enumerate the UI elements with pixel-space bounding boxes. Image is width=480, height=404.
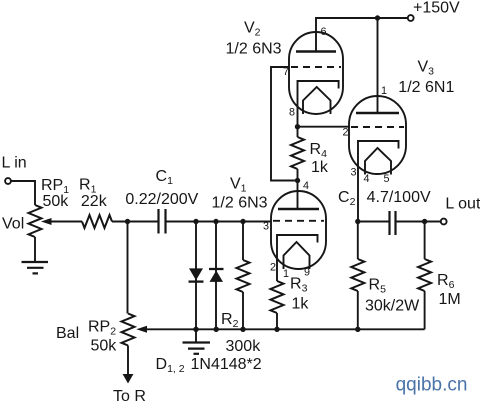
resistor R4 xyxy=(291,137,304,169)
junction R5 bottom xyxy=(355,327,360,332)
wire RP1 wiper to R1 xyxy=(49,221,82,223)
svg-text:22k: 22k xyxy=(81,193,108,210)
svg-text:L in: L in xyxy=(2,155,27,172)
wire R1 to C1, node A xyxy=(112,221,158,223)
junction R4 bottom / V1 plate xyxy=(295,178,300,183)
junction output node xyxy=(355,219,360,224)
junction R2 top xyxy=(240,219,245,224)
wire node A down to RP2 xyxy=(127,222,129,314)
svg-text:+150V: +150V xyxy=(413,0,460,17)
wire R6 bottom to rail xyxy=(424,291,426,329)
bottom rail wire xyxy=(145,328,425,330)
wire C2 to L out xyxy=(397,221,441,223)
RP1 wiper arrow xyxy=(41,218,52,225)
wire RP2 bottom to To R arrow xyxy=(127,346,129,376)
V3 heater filament xyxy=(365,148,391,175)
V3 plate line xyxy=(356,112,399,115)
svg-text:1k: 1k xyxy=(311,159,329,176)
wire R4 top lead xyxy=(297,127,299,137)
terminal +150V xyxy=(408,15,414,21)
svg-text:9: 9 xyxy=(304,267,310,279)
RP2 wiper arrow xyxy=(136,326,147,333)
svg-text:50k: 50k xyxy=(91,338,118,355)
junction +150V rail xyxy=(375,15,380,20)
V2 heater filament xyxy=(303,87,331,114)
svg-text:1/2 6N3: 1/2 6N3 xyxy=(226,41,282,58)
wire RP1 bottom to ground xyxy=(34,237,36,262)
capacitor C2 xyxy=(390,211,396,235)
V1 heater filament xyxy=(284,242,310,269)
V3 grid dashed line xyxy=(351,126,404,128)
junction ground node xyxy=(193,327,198,332)
V1 grid dashed line xyxy=(273,220,324,222)
svg-text:1M: 1M xyxy=(439,291,461,308)
svg-text:2: 2 xyxy=(270,262,276,274)
V2 grid dashed line xyxy=(291,66,341,68)
svg-text:1k: 1k xyxy=(292,296,310,313)
wire diode D2 branch xyxy=(215,222,217,330)
svg-text:1N4148*2: 1N4148*2 xyxy=(191,356,262,373)
svg-text:4: 4 xyxy=(364,173,370,185)
tube V1 envelope xyxy=(271,191,326,269)
ground (below RP1) xyxy=(22,262,49,273)
V3 cathode bracket and lead to output node xyxy=(358,141,399,222)
junction D1 top xyxy=(193,219,198,224)
svg-text:6: 6 xyxy=(321,26,327,38)
wire V2 grid to R4 bottom xyxy=(271,67,298,181)
wire V2 cathode to V3 grid xyxy=(298,126,350,128)
wire R6 branch xyxy=(424,222,426,260)
wire diode D1 branch xyxy=(195,222,197,330)
ground (bottom rail) xyxy=(195,329,197,342)
svg-text:Bal: Bal xyxy=(56,325,79,342)
svg-text:4.7/100V: 4.7/100V xyxy=(367,189,431,206)
wire R3 bottom lead xyxy=(276,313,278,329)
V1 plate lead wire xyxy=(297,181,299,210)
tube V2 envelope xyxy=(289,32,343,114)
svg-text:3: 3 xyxy=(351,167,357,179)
svg-text:4: 4 xyxy=(303,180,309,192)
resistor R2 xyxy=(237,260,250,292)
resistor R5 xyxy=(351,259,364,291)
junction D2 top xyxy=(213,219,218,224)
V2 plate line xyxy=(296,50,336,53)
V2 plate lead wire to +150V rail xyxy=(316,18,408,52)
svg-text:To R: To R xyxy=(113,388,146,404)
junction R3 bottom xyxy=(274,327,279,332)
svg-text:50k: 50k xyxy=(43,193,70,210)
potentiometer RP2 body xyxy=(122,314,135,346)
svg-text:L out: L out xyxy=(445,196,480,213)
tube V3 envelope xyxy=(349,96,406,174)
resistor R1 xyxy=(82,215,112,228)
V1 plate line xyxy=(278,208,319,211)
wire R5 bottom lead xyxy=(357,291,359,329)
junction node A xyxy=(125,219,130,224)
svg-text:7: 7 xyxy=(283,66,289,78)
V3 plate lead wire to +150V rail xyxy=(377,18,379,113)
capacitor C1 xyxy=(159,209,166,234)
svg-text:2: 2 xyxy=(343,127,349,139)
svg-text:1: 1 xyxy=(381,85,387,97)
wire output node to C2 xyxy=(358,221,389,223)
resistor R6 xyxy=(418,259,431,291)
svg-text:1/2 6N1: 1/2 6N1 xyxy=(398,79,454,96)
svg-text:300k: 300k xyxy=(226,338,262,355)
wire C1 to V1 grid rail xyxy=(167,221,272,223)
svg-text:1: 1 xyxy=(283,268,289,280)
svg-text:1/2 6N3: 1/2 6N3 xyxy=(212,195,268,212)
svg-text:8: 8 xyxy=(289,107,295,119)
svg-text:0.22/200V: 0.22/200V xyxy=(125,191,198,208)
V2 cathode bracket and lead down xyxy=(298,81,339,127)
input terminal L in xyxy=(5,178,11,184)
svg-text:30k/2W: 30k/2W xyxy=(365,298,420,315)
junction R2 bottom xyxy=(240,327,245,332)
diode D2 xyxy=(209,268,224,270)
junction D2 bottom xyxy=(214,327,219,332)
diode D1 xyxy=(189,268,203,280)
wire R2 top lead xyxy=(242,222,244,261)
wire L in to RP1 top xyxy=(11,181,35,205)
V1 cathode bracket and lead to R3 xyxy=(277,235,318,281)
resistor R3 xyxy=(271,281,284,313)
svg-text:3: 3 xyxy=(263,221,269,233)
arrow to R channel xyxy=(123,374,134,384)
svg-text:qqibb.cn: qqibb.cn xyxy=(396,375,468,396)
wire output node down to R5 xyxy=(357,222,359,260)
potentiometer RP1 body xyxy=(29,205,42,237)
terminal L out xyxy=(441,219,447,225)
junction V2 cathode / V3 grid xyxy=(295,124,300,129)
svg-text:Vol: Vol xyxy=(2,216,24,233)
svg-text:5: 5 xyxy=(384,173,390,185)
wire R4 bottom lead xyxy=(297,169,299,181)
wire R2 bottom lead xyxy=(242,292,244,329)
junction R6 top xyxy=(422,219,427,224)
